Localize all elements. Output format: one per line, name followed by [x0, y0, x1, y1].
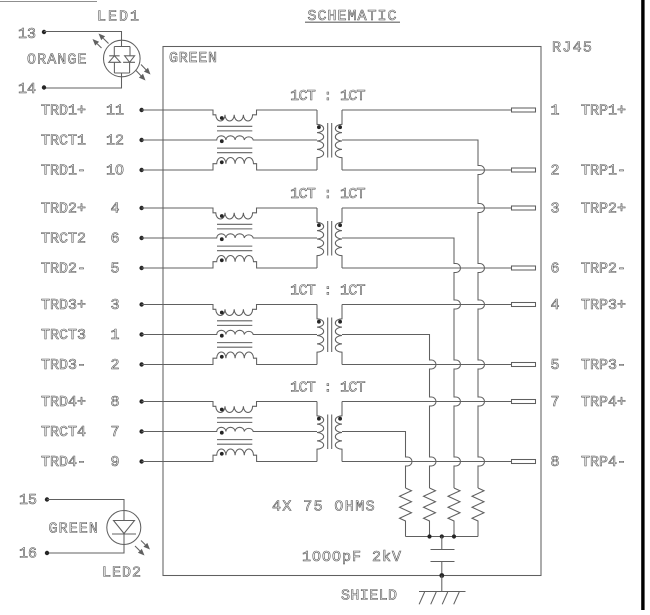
transformer T3 primary polarity dot: [317, 320, 321, 324]
pad pin 2 (TRP1-): [512, 168, 536, 172]
resistor R4 (75 ohm): [400, 488, 412, 537]
scan border bar right edge: [641, 0, 644, 610]
pad pin 4 (TRP3+): [512, 303, 536, 307]
wire T4 secondary center tap down to termination resistor R4: [342, 432, 412, 489]
common-mode choke L1 top winding (TRD1+) with wire from pin: [142, 110, 317, 121]
svg-text:1OOOpF 2kV: 1OOOpF 2kV: [302, 549, 402, 566]
transformer T1 secondary polarity dot: [338, 125, 342, 129]
svg-text:3: 3: [551, 201, 560, 218]
node TRP2- : pin number and label: [551, 261, 627, 278]
pin 14 dot: [42, 85, 46, 89]
node TRCT3 : label, pin number, pin dot: [41, 327, 144, 344]
svg-text:7: 7: [551, 394, 560, 411]
svg-text:TRP1-: TRP1-: [581, 163, 626, 180]
transformer T3 primary winding: [317, 305, 324, 365]
svg-text:1: 1: [110, 327, 119, 344]
svg-text:13: 13: [18, 26, 36, 43]
choke L3 core lines: [217, 321, 252, 347]
svg-text:TRD2+: TRD2+: [41, 201, 86, 218]
transformer T1 primary polarity dot: [317, 125, 321, 129]
svg-text:2: 2: [110, 357, 119, 374]
transformer T1 core: [328, 123, 332, 158]
wire T2 secondary top to pad TRP3: [342, 207, 512, 209]
node TRP2+ : pin number and label: [551, 201, 627, 218]
wire T2 secondary center tap down to termination resistor R2: [342, 238, 461, 488]
svg-text:9: 9: [110, 454, 119, 471]
choke L1 core lines: [217, 126, 252, 152]
wire T1 secondary top to pad TRP1: [342, 109, 512, 111]
LED1 light arrows upper-left: [93, 34, 109, 49]
transformer T1 primary winding: [317, 110, 324, 170]
junction dot bus/R3: [427, 534, 431, 538]
svg-text:TRP4+: TRP4+: [581, 394, 626, 411]
svg-text:TRCT1: TRCT1: [41, 133, 86, 150]
transformer T4 primary polarity dot: [317, 417, 321, 421]
choke L4 bottom winding polarity dot: [220, 452, 224, 456]
choke L3 bottom winding polarity dot: [220, 355, 224, 359]
choke L2 core lines: [217, 224, 252, 250]
pad pin 3 (TRP2+): [512, 206, 536, 210]
node TRP4+ : pin number and label: [551, 394, 627, 411]
svg-text:TRD3-: TRD3-: [41, 357, 86, 374]
node TRP1+ : pin number and label: [551, 103, 627, 120]
svg-text:TRP3+: TRP3+: [581, 297, 626, 314]
svg-text:1CT : 1CT: 1CT : 1CT: [290, 380, 365, 397]
svg-text:TRP1+: TRP1+: [581, 103, 626, 120]
wire T1 secondary bottom to pad TRP2: [342, 169, 512, 171]
transformer T4 secondary polarity dot: [338, 417, 342, 421]
pad pin 6 (TRP2-): [512, 266, 536, 270]
resistor R1 (75 ohm): [472, 488, 484, 537]
choke L3 center-tap polarity dot: [220, 334, 224, 338]
svg-text:12: 12: [106, 133, 124, 150]
wire T4 secondary bottom to pad TRP8: [342, 461, 512, 463]
junction dot bus/C1: [440, 534, 444, 538]
node TRP3- : pin number and label: [551, 357, 627, 374]
pad pin 8 (TRP4-): [512, 460, 536, 464]
choke L3 bottom winding (TRD3-) with wire from pin: [142, 352, 317, 364]
choke L2 center-tap polarity dot: [220, 237, 224, 241]
common-mode choke L2 top winding (TRD2+) with wire from pin: [142, 208, 317, 219]
svg-text:TRCT4: TRCT4: [41, 424, 86, 441]
choke L4 top winding polarity dot: [220, 408, 224, 412]
svg-text:TRD1-: TRD1-: [41, 163, 86, 180]
resistor R3 (75 ohm): [424, 488, 436, 537]
wire LED2 cathode to pin 16: [47, 534, 124, 553]
svg-text:TRD3+: TRD3+: [41, 297, 86, 314]
transformer T2 primary polarity dot: [317, 223, 321, 227]
LED1 light arrows lower-right: [136, 65, 151, 81]
capacitor C1 1000pF 2kV: [431, 537, 455, 576]
pin 15 dot: [45, 497, 49, 501]
svg-text:1CT : 1CT: 1CT : 1CT: [290, 88, 365, 105]
svg-text:16: 16: [19, 546, 37, 563]
svg-text:SHIELD: SHIELD: [341, 588, 397, 605]
common-mode choke L4 top winding (TRD4+) with wire from pin: [142, 402, 317, 413]
transformer T4 core: [328, 415, 332, 450]
choke L1 center-tap polarity dot: [220, 139, 224, 143]
choke L2 bottom winding (TRD2-) with wire from pin: [142, 256, 317, 268]
choke L1 center-tap winding (TRCT1) with wire from pin: [142, 136, 317, 140]
svg-text:14: 14: [18, 81, 36, 98]
transformer T2 secondary winding: [335, 208, 342, 268]
svg-text:7: 7: [110, 424, 119, 441]
svg-text:1O: 1O: [106, 163, 124, 180]
svg-text:11: 11: [106, 103, 124, 120]
choke L1 bottom winding (TRD1-) with wire from pin: [142, 158, 317, 171]
termination bus wire joining R1-R4: [406, 536, 479, 538]
node TRP1- : pin number and label: [551, 163, 627, 180]
node TRD4- : label, pin number, pin dot: [41, 454, 144, 471]
svg-text:15: 15: [19, 492, 37, 509]
junction dot shield/C1 on module outline: [439, 573, 444, 578]
choke L1 bottom winding polarity dot: [220, 160, 224, 164]
wire T2 secondary bottom to pad TRP6: [342, 267, 512, 269]
node TRD2+ : label, pin number, pin dot: [41, 201, 144, 218]
ground symbol (chassis/shield): [419, 576, 466, 605]
node TRD3+ : label, pin number, pin dot: [41, 297, 144, 314]
border remnant top-left: [0, 1, 97, 3]
choke L3 top winding polarity dot: [220, 311, 224, 315]
svg-text:GREEN: GREEN: [169, 50, 218, 67]
svg-text:2: 2: [551, 163, 560, 180]
svg-text:6: 6: [551, 261, 560, 278]
svg-text:TRD2-: TRD2-: [41, 261, 86, 278]
svg-text:4: 4: [110, 201, 119, 218]
node TRP4- : pin number and label: [551, 454, 627, 471]
transformer T3 secondary polarity dot: [338, 320, 342, 324]
svg-text:1CT : 1CT: 1CT : 1CT: [290, 283, 365, 300]
svg-text:5: 5: [551, 357, 560, 374]
svg-text:5: 5: [110, 261, 119, 278]
svg-text:4X 75 OHMS: 4X 75 OHMS: [272, 499, 376, 516]
wire T3 secondary center tap down to termination resistor R3: [342, 335, 436, 489]
LED2 diode symbol: [107, 511, 141, 545]
svg-text:GREEN: GREEN: [49, 521, 100, 538]
node TRCT1 : label, pin number, pin dot: [41, 133, 144, 150]
svg-text:8: 8: [551, 454, 560, 471]
pad pin 7 (TRP4+): [512, 400, 536, 404]
LED2 light arrows lower-right: [135, 541, 150, 556]
transformer T4 secondary winding: [335, 402, 342, 462]
svg-text:TRD1+: TRD1+: [41, 103, 86, 120]
transformer T3 core: [328, 318, 332, 353]
choke L4 bottom winding (TRD4-) with wire from pin: [142, 449, 317, 461]
svg-text:6: 6: [110, 231, 119, 248]
junction dot bus/R2: [452, 534, 456, 538]
svg-text:8: 8: [110, 394, 119, 411]
svg-text:1CT : 1CT: 1CT : 1CT: [290, 186, 365, 203]
choke L4 core lines: [217, 418, 252, 444]
transformer T1 secondary winding: [335, 110, 342, 170]
svg-text:RJ45: RJ45: [552, 40, 593, 57]
choke L2 center-tap winding (TRCT2) with wire from pin: [142, 234, 317, 238]
choke L2 top winding polarity dot: [220, 214, 224, 218]
wire T4 secondary top to pad TRP7: [342, 401, 512, 403]
choke L4 center-tap winding (TRCT4) with wire from pin: [142, 427, 317, 431]
transformer T2 core: [328, 221, 332, 256]
svg-text:4: 4: [551, 297, 560, 314]
node TRD3- : label, pin number, pin dot: [41, 357, 144, 374]
svg-text:TRP3-: TRP3-: [581, 357, 626, 374]
choke L4 center-tap polarity dot: [220, 431, 224, 435]
choke L3 center-tap winding (TRCT3) with wire from pin: [142, 330, 317, 334]
choke L1 top winding polarity dot: [220, 116, 224, 120]
wire T3 secondary top to pad TRP4: [342, 304, 512, 306]
node TRD2- : label, pin number, pin dot: [41, 261, 144, 278]
pad pin 1 (TRP1+): [512, 108, 536, 112]
choke L2 bottom winding polarity dot: [220, 258, 224, 262]
node TRD4+ : label, pin number, pin dot: [41, 394, 144, 411]
svg-text:ORANGE: ORANGE: [27, 52, 88, 69]
svg-text:TRD4-: TRD4-: [41, 454, 86, 471]
svg-text:LED2: LED2: [102, 565, 142, 582]
svg-text:LED1: LED1: [97, 9, 141, 26]
resistor R2 (75 ohm): [448, 488, 460, 537]
node TRD1+ : label, pin number, pin dot: [41, 103, 144, 120]
svg-text:TRP2-: TRP2-: [581, 261, 626, 278]
node TRCT4 : label, pin number, pin dot: [41, 424, 144, 441]
svg-text:TRD4+: TRD4+: [41, 394, 86, 411]
transformer T3 secondary winding: [335, 305, 342, 365]
svg-text:TRCT2: TRCT2: [41, 231, 86, 248]
svg-text:TRP4-: TRP4-: [581, 454, 626, 471]
pin 16 dot: [45, 551, 49, 555]
transformer T2 secondary polarity dot: [338, 223, 342, 227]
transformer T2 primary winding: [317, 208, 324, 268]
svg-text:TRCT3: TRCT3: [41, 327, 86, 344]
pad pin 5 (TRP3-): [512, 363, 536, 367]
svg-text:1: 1: [551, 103, 560, 120]
node TRP3+ : pin number and label: [551, 297, 627, 314]
wire pin13 to LED1 anode: [44, 32, 122, 47]
wire T1 secondary center tap down to termination resistor R1: [342, 140, 485, 488]
transformer T4 primary winding: [317, 402, 324, 462]
wire LED1 cathode to pin 14: [44, 73, 122, 88]
node TRCT2 : label, pin number, pin dot: [41, 231, 144, 248]
module outline box: [163, 47, 541, 576]
wire pin15 to LED2 anode: [47, 500, 124, 521]
svg-text:3: 3: [110, 297, 119, 314]
wire T3 secondary bottom to pad TRP5: [342, 364, 512, 366]
pin 13 dot: [42, 30, 46, 34]
svg-text:TRP2+: TRP2+: [581, 201, 626, 218]
common-mode choke L3 top winding (TRD3+) with wire from pin: [142, 305, 317, 316]
LED1 bicolor diode symbol: [104, 40, 141, 77]
node TRD1- : label, pin number, pin dot: [41, 163, 144, 180]
